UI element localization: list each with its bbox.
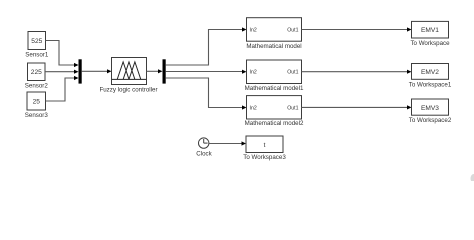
corner smudge bottom-right [471, 174, 474, 183]
svg-text:Out1: Out1 [287, 70, 298, 76]
wire Mux output to Fuzzy logic controller [82, 70, 108, 72]
clock Clock [199, 138, 209, 148]
clock hand 12 o'clock [203, 139, 205, 143]
svg-text:To Workspace: To Workspace [410, 40, 450, 47]
arrowhead EMV3 input [407, 105, 412, 109]
svg-text:525: 525 [31, 38, 42, 45]
wire Mathematical model2 Out1 to EMV3 [302, 106, 409, 108]
subsystem Mathematical model1 [247, 60, 302, 84]
wire Clock to To Workspace3 [209, 143, 243, 145]
arrowhead To Workspace3 input [242, 141, 247, 145]
arrowhead EMV1 input [407, 27, 412, 31]
wire Sensor2 to Mux input 2 [45, 71, 76, 73]
svg-text:Clock: Clock [196, 151, 212, 158]
To Workspace block EMV2 [412, 64, 449, 80]
wire Demux output 1 to Mathematical model [166, 30, 243, 66]
membership triangle 3 [129, 62, 141, 80]
constant block Sensor2 (value 225) [28, 63, 46, 81]
svg-text:In2: In2 [250, 27, 257, 33]
arrowhead Mux input 2 [74, 70, 79, 74]
arrowhead Mathematical model2 input In2 [242, 105, 247, 109]
svg-text:Out1: Out1 [287, 105, 298, 111]
subsystem Fuzzy logic controller [112, 58, 147, 85]
wire Sensor1 to Mux input 1 [46, 41, 77, 66]
arrowhead Demux input [158, 69, 163, 73]
svg-text:EMV1: EMV1 [421, 27, 439, 34]
svg-text:Fuzzy logic controller: Fuzzy logic controller [99, 87, 157, 94]
svg-text:To Workspace1: To Workspace1 [409, 82, 452, 89]
wire Mathematical model1 Out1 to EMV2 [302, 71, 409, 73]
svg-text:Mathematical model2: Mathematical model2 [245, 120, 304, 127]
To Workspace block EMV3 [412, 99, 449, 115]
svg-text:Sensor2: Sensor2 [25, 83, 49, 90]
wire Demux output 2 to Mathematical model1 [166, 71, 243, 73]
svg-text:EMV2: EMV2 [421, 69, 439, 76]
arrowhead Fuzzy controller input [107, 69, 112, 73]
svg-text:In2: In2 [250, 70, 257, 76]
svg-text:t: t [264, 142, 266, 149]
svg-text:225: 225 [31, 69, 42, 76]
arrowhead Mathematical model1 input In2 [242, 70, 247, 74]
svg-text:To Workspace2: To Workspace2 [409, 117, 452, 124]
wire Sensor3 to Mux input 3 [46, 78, 77, 101]
svg-text:In2: In2 [250, 105, 257, 111]
membership triangle 2 [123, 62, 135, 80]
constant block Sensor3 (value 25) [27, 92, 46, 110]
svg-text:Mathematical model: Mathematical model [246, 43, 301, 50]
membership function baseline [112, 78, 146, 80]
mux Mux1 (bar) [79, 59, 82, 83]
To Workspace block EMV1 [412, 21, 449, 38]
arrowhead Mathematical model input In2 [242, 27, 247, 31]
arrowhead Mux input 1 [74, 63, 79, 67]
clock hand 3 o'clock [204, 142, 208, 144]
demux Demux1 (bar) [163, 59, 166, 83]
wire Mathematical model Out1 to EMV1 [302, 29, 409, 31]
svg-text:Sensor1: Sensor1 [25, 52, 49, 59]
arrowhead EMV2 input [407, 70, 412, 74]
To Workspace block To Workspace3 (t) [246, 136, 283, 153]
subsystem Mathematical model [247, 18, 302, 42]
wire Fuzzy controller to Demux [147, 70, 160, 72]
subsystem Mathematical model2 [247, 96, 302, 119]
svg-text:EMV3: EMV3 [421, 105, 439, 112]
constant block Sensor1 (value 525) [28, 32, 46, 50]
svg-text:To Workspace3: To Workspace3 [243, 154, 286, 161]
membership triangle 1 [117, 62, 129, 80]
svg-text:Mathematical model1: Mathematical model1 [245, 85, 304, 92]
svg-text:Out1: Out1 [287, 27, 298, 33]
wire Demux output 3 to Mathematical model2 [166, 78, 243, 108]
arrowhead Mux input 3 [74, 76, 79, 80]
svg-text:25: 25 [33, 98, 41, 105]
svg-text:Sensor3: Sensor3 [25, 112, 49, 119]
